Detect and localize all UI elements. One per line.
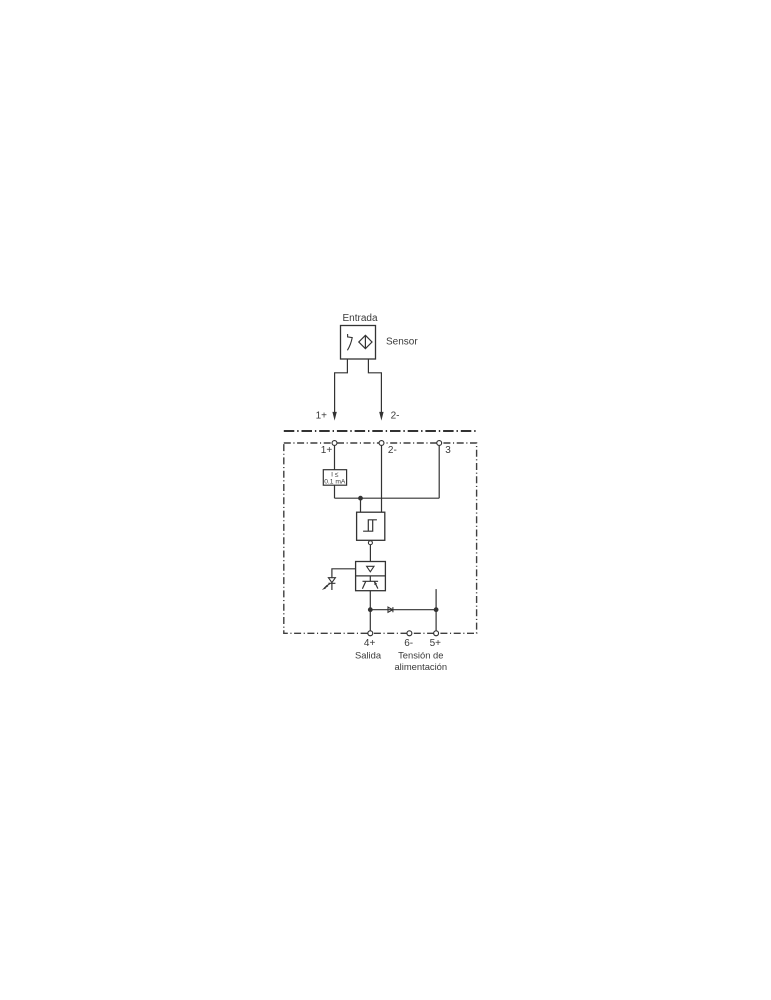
- svg-text:2-: 2-: [391, 410, 400, 421]
- wire trigger to output stage: [369, 545, 371, 562]
- terminal circle 2-: [379, 441, 384, 446]
- arrow into terminal 1+: [332, 412, 336, 421]
- svg-text:Sensor: Sensor: [386, 337, 418, 348]
- junction node B: [368, 607, 373, 612]
- terminal circle 5+: [434, 631, 439, 636]
- svg-text:I ≤: I ≤: [331, 471, 339, 478]
- upper dash-dot separation line: [284, 430, 478, 432]
- svg-text:4+: 4+: [364, 638, 376, 649]
- transistor symbol Q1: [362, 576, 378, 589]
- LED D2: [328, 578, 335, 584]
- wire node C to terminal 5+: [435, 610, 437, 631]
- svg-text:alimentación: alimentación: [394, 661, 447, 672]
- wire sensor pin 2: [368, 359, 381, 413]
- NAMUR diamond symbol: [359, 335, 372, 348]
- terminal circle 1+: [332, 441, 337, 446]
- output bubble: [368, 541, 372, 545]
- svg-text:1+: 1+: [316, 410, 328, 421]
- triangle symbol: [367, 566, 374, 572]
- sensor box B1: [341, 326, 376, 360]
- svg-text:0.1 mA: 0.1 mA: [324, 479, 346, 486]
- LED light arrow 1: [326, 584, 330, 587]
- svg-text:5+: 5+: [430, 638, 442, 649]
- svg-text:6-: 6-: [404, 638, 413, 649]
- wire node B to node C: [370, 609, 436, 611]
- wire to LED: [332, 569, 356, 590]
- wire output stage to terminal 4+: [369, 591, 371, 631]
- output stage box U2: [356, 562, 386, 591]
- transistor emitter arrow: [374, 581, 377, 585]
- wire sensor pin 1: [335, 359, 348, 413]
- wire terminal 2- down to trigger: [381, 446, 383, 513]
- svg-text:Entrada: Entrada: [342, 313, 377, 324]
- wire node A down to trigger: [360, 498, 362, 512]
- hysteresis symbol: [363, 520, 377, 531]
- output stage divider: [356, 575, 386, 577]
- wire horizontal node A to terminal 3 branch: [335, 497, 440, 499]
- wire current limiter to node A: [334, 485, 336, 498]
- current limiter box I<=0.1mA: [323, 470, 346, 486]
- svg-text:3: 3: [445, 445, 451, 456]
- svg-text:Salida: Salida: [355, 650, 382, 661]
- terminal circle 3: [437, 441, 442, 446]
- svg-text:1+: 1+: [321, 445, 333, 456]
- wire terminal 3 down: [438, 446, 440, 499]
- terminal circle 6-: [407, 631, 412, 636]
- switch contact symbol: [347, 334, 352, 350]
- wire terminal 1+ down to current limiter: [334, 446, 336, 470]
- junction node A: [358, 496, 363, 501]
- svg-text:Tensión de: Tensión de: [398, 650, 443, 661]
- terminal circle 4+: [368, 631, 373, 636]
- LED light arrow 2: [324, 586, 328, 589]
- svg-text:2-: 2-: [388, 445, 397, 456]
- wire stub up from node C: [435, 589, 437, 610]
- Schmitt trigger box U1: [357, 512, 385, 540]
- arrow into terminal 2-: [379, 412, 383, 421]
- diode D1: [388, 607, 393, 612]
- junction node C: [434, 607, 439, 612]
- barrier enclosure dash-dot box: [284, 443, 477, 633]
